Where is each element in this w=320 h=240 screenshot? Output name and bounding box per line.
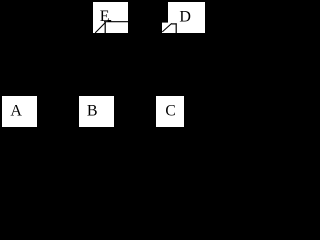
svg-text:D: D — [179, 9, 191, 26]
svg-text:B: B — [87, 103, 98, 120]
svg-text:E: E — [100, 8, 110, 25]
svg-text:A: A — [10, 103, 22, 120]
svg-text:C: C — [165, 103, 175, 120]
